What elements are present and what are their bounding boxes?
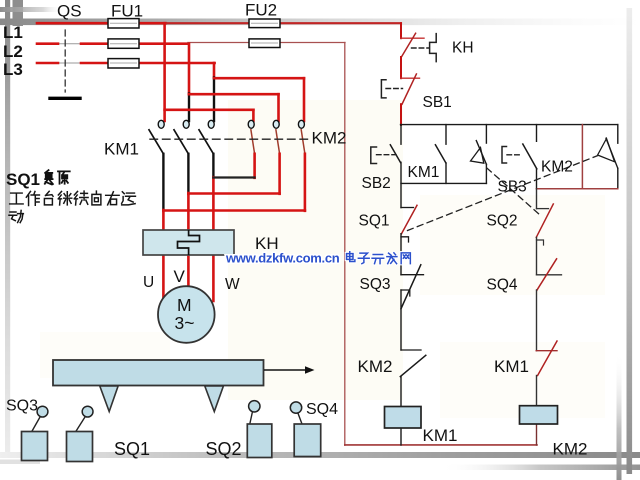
svg-text:SQ3: SQ3: [360, 276, 391, 293]
svg-text:KM1: KM1: [494, 357, 529, 376]
svg-text:SQ1: SQ1: [6, 170, 40, 189]
svg-text:SB2: SB2: [362, 175, 391, 192]
svg-text:U: U: [143, 274, 154, 291]
svg-text:KM1: KM1: [423, 426, 458, 445]
svg-text:SQ3: SQ3: [6, 398, 38, 415]
svg-text:3~: 3~: [175, 313, 195, 333]
svg-text:KM2: KM2: [358, 357, 393, 376]
svg-text:SQ1: SQ1: [114, 439, 150, 459]
svg-text:www.dzkfw.com.cn: www.dzkfw.com.cn: [225, 251, 340, 266]
svg-text:SQ4: SQ4: [487, 277, 518, 294]
svg-text:L2: L2: [3, 42, 23, 61]
svg-text:V: V: [174, 267, 186, 286]
svg-text:SQ4: SQ4: [306, 401, 338, 418]
svg-text:SQ2: SQ2: [487, 213, 518, 230]
svg-text:L3: L3: [3, 60, 23, 79]
svg-text:KM1: KM1: [104, 140, 139, 159]
svg-text:FU2: FU2: [245, 1, 277, 20]
svg-text:KM2: KM2: [553, 440, 588, 459]
svg-text:KM2: KM2: [312, 129, 347, 148]
svg-text:KM2: KM2: [541, 159, 573, 176]
svg-text:SQ1: SQ1: [359, 213, 390, 230]
svg-text:M: M: [177, 295, 192, 315]
svg-text:QS: QS: [57, 2, 82, 21]
svg-text:FU1: FU1: [111, 2, 143, 21]
svg-text:SB1: SB1: [423, 94, 452, 111]
svg-text:KM1: KM1: [408, 164, 440, 181]
svg-text:KH: KH: [452, 40, 474, 57]
svg-text:SQ2: SQ2: [206, 439, 242, 459]
svg-text:SB3: SB3: [498, 179, 527, 196]
svg-text:W: W: [225, 276, 240, 293]
svg-text:L1: L1: [3, 23, 23, 42]
